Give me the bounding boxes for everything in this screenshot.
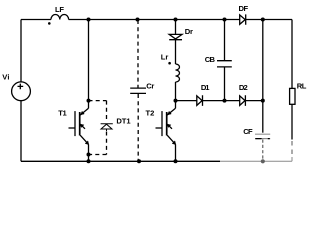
transistor T1 xyxy=(80,108,88,115)
diode D1 xyxy=(197,95,203,106)
node T1 collector xyxy=(87,99,91,103)
wire CF branch xyxy=(262,101,264,133)
dashed link DT1 right lower xyxy=(106,132,108,155)
wire Lr to node xyxy=(175,82,177,101)
source Vi xyxy=(12,82,31,101)
wire top rail left xyxy=(21,19,51,21)
node bottom CF grey xyxy=(261,159,265,163)
node top DF out xyxy=(261,18,265,22)
diode D2 xyxy=(240,95,246,106)
wire Dr to Lr xyxy=(175,40,177,64)
wire D1 to node xyxy=(203,100,240,102)
svg-text:D1: D1 xyxy=(201,83,210,92)
capacitor Cr xyxy=(130,88,146,93)
wire CB branch lower xyxy=(224,67,226,100)
svg-text:DF: DF xyxy=(239,4,249,13)
node top Cr xyxy=(136,18,140,22)
diode Dr xyxy=(169,34,182,39)
wire right rail below RL xyxy=(291,104,293,139)
wire DF out down to middle rail xyxy=(262,20,264,101)
dashed link DT1 top xyxy=(89,100,107,102)
capacitor CF xyxy=(255,133,270,135)
polarity mark LF xyxy=(48,22,51,25)
node top CB xyxy=(223,18,227,22)
resistor RL xyxy=(290,88,295,104)
svg-text:LF: LF xyxy=(55,5,64,14)
wire top rail after DF xyxy=(246,19,292,21)
dashed branch Cr lower xyxy=(137,94,139,161)
svg-text:Lr: Lr xyxy=(161,53,169,62)
wire CB branch upper xyxy=(224,20,226,61)
node middle CB xyxy=(223,99,227,103)
wire bottom rail black xyxy=(21,160,220,162)
svg-text:DT1: DT1 xyxy=(116,116,131,125)
svg-text:D2: D2 xyxy=(239,83,248,92)
node bottom T1 xyxy=(87,159,91,163)
dashed branch Cr upper xyxy=(137,20,139,88)
wire right rail upper xyxy=(291,20,293,89)
svg-text:RL: RL xyxy=(297,82,307,91)
wire CF lower dashed lead xyxy=(262,140,264,161)
wire left rail upper xyxy=(20,20,22,83)
svg-text:Cr: Cr xyxy=(146,82,154,91)
node top Dr xyxy=(174,18,178,22)
capacitor CB xyxy=(217,61,232,67)
inductor LF xyxy=(51,15,69,20)
wire right rail grey bottom xyxy=(291,157,293,161)
wire middle rail to D1 xyxy=(176,100,197,102)
node top T1 xyxy=(87,18,91,22)
wire bottom rail grey xyxy=(220,160,292,162)
dashed link DT1 bottom xyxy=(89,154,107,156)
svg-text:T1: T1 xyxy=(58,109,67,118)
node middle T2 xyxy=(174,99,178,103)
dashed link DT1 right upper xyxy=(106,101,108,121)
wire left rail lower xyxy=(20,101,22,162)
inductor Lr xyxy=(176,64,180,82)
node middle CF xyxy=(261,99,265,103)
wire T2 emitter xyxy=(175,145,177,162)
wire T1 emitter xyxy=(88,145,90,162)
svg-text:CF: CF xyxy=(243,127,253,136)
node bottom T2 xyxy=(174,159,178,163)
wire right rail dashed part xyxy=(291,141,293,157)
transistor T2 xyxy=(175,101,177,109)
polarity mark Lr xyxy=(168,62,171,65)
wire Dr branch upper xyxy=(175,20,177,35)
svg-text:Vi: Vi xyxy=(2,73,9,82)
wire top rail right xyxy=(69,19,240,21)
diode DT1 xyxy=(101,124,113,131)
node bottom Cr xyxy=(137,159,141,163)
wire T1 collector from top rail xyxy=(88,20,90,109)
svg-text:CB: CB xyxy=(205,55,216,64)
svg-text:T2: T2 xyxy=(146,109,155,118)
svg-text:Dr: Dr xyxy=(185,27,193,36)
wire D2 to node xyxy=(246,100,263,102)
node T1 emitter DT1 xyxy=(87,153,91,157)
diode DF xyxy=(240,14,246,24)
